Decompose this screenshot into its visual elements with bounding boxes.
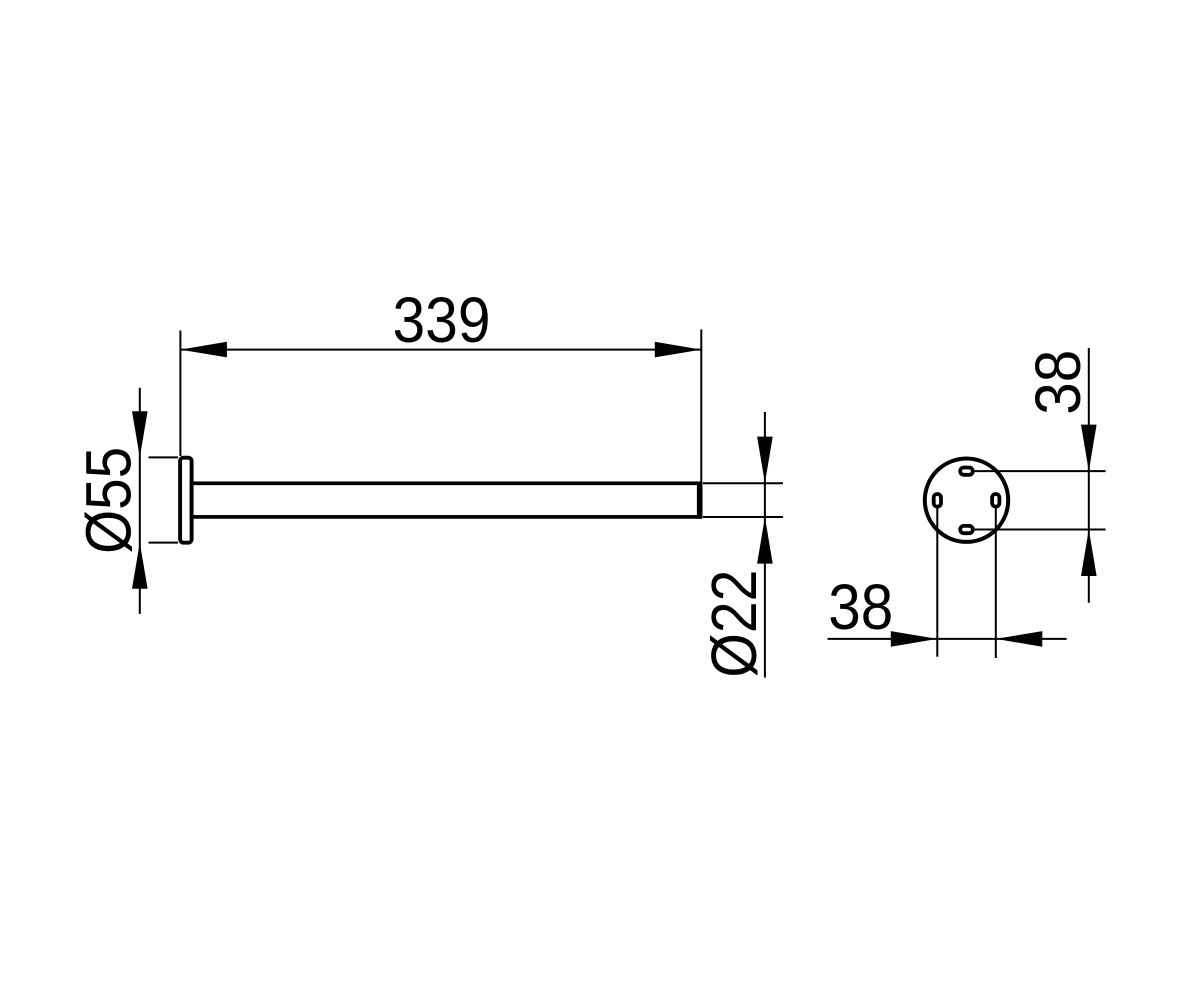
slot top [960,468,973,475]
slot left [934,494,941,507]
svg-text:38: 38 [828,571,893,643]
dimension line horizontal 38 [828,638,1067,640]
arrow bottom of vertical 38 [1081,530,1097,577]
extension line left of horizontal 38 [936,508,938,657]
extension line bottom of O22 [703,516,783,518]
extension line bottom of O55 [149,542,179,544]
slot bottom [960,526,973,533]
wall flange (side view) [180,458,192,543]
extension line bottom of vertical 38 [975,529,1106,531]
slot right [992,494,999,507]
svg-text:38: 38 [1022,350,1094,415]
dimension line O22 [764,412,766,678]
arrow top of O55 [132,411,148,457]
dimension line 339 [180,349,701,351]
arrow right of 339 [655,342,702,358]
extension line top of vertical 38 [975,470,1106,472]
dimension line O55 [139,388,141,614]
extension line left of 339 [179,331,181,457]
extension line right of 339 [700,330,702,485]
arrow top of vertical 38 [1081,425,1097,472]
arrow left of horizontal 38 [891,631,938,647]
extension line top of O22 [703,482,783,484]
arrow right of horizontal 38 [996,631,1043,647]
arrow left of 339 [180,342,227,358]
svg-text:Ø22: Ø22 [698,570,770,678]
arrow bottom of O55 [132,543,148,589]
svg-text:339: 339 [393,284,491,356]
bar end cap [697,482,703,519]
extension line top of O55 [149,456,179,458]
bar (side view) [192,483,700,517]
wall plate circle (front view) [925,459,1008,542]
arrow bottom of O22 [757,517,773,564]
arrow top of O22 [757,437,773,484]
extension line right of horizontal 38 [995,508,997,658]
dimension line vertical 38 [1088,348,1090,603]
svg-text:Ø55: Ø55 [72,447,144,554]
